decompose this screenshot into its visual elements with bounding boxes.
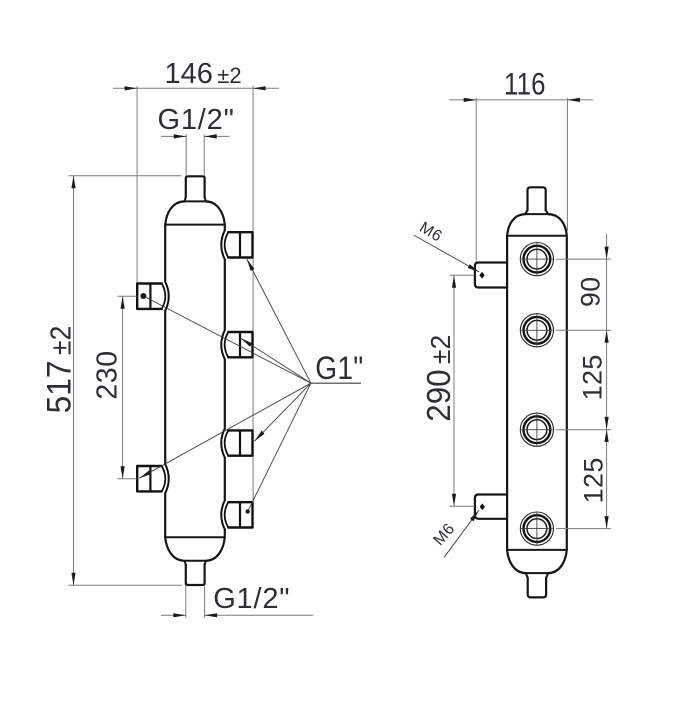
svg-text:230: 230 (92, 350, 124, 399)
svg-text:G1/2": G1/2" (213, 583, 290, 615)
svg-text:125: 125 (578, 354, 608, 400)
svg-text:517 ±2: 517 ±2 (40, 326, 79, 414)
svg-text:125: 125 (579, 457, 609, 503)
svg-text:146 ±2: 146 ±2 (165, 58, 242, 90)
svg-text:G1": G1" (315, 351, 363, 386)
svg-text:90: 90 (576, 277, 606, 307)
svg-text:116: 116 (504, 67, 546, 102)
svg-text:290 ±2: 290 ±2 (420, 335, 457, 422)
svg-text:G1/2": G1/2" (158, 104, 235, 136)
